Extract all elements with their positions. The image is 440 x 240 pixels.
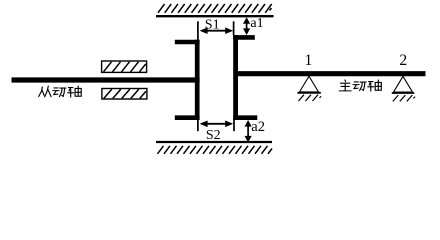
svg-text:1: 1 bbox=[305, 52, 313, 69]
svg-text:S1: S1 bbox=[205, 18, 220, 33]
svg-text:a1: a1 bbox=[250, 16, 263, 31]
svg-text:S2: S2 bbox=[206, 128, 221, 143]
svg-text:2: 2 bbox=[399, 52, 407, 69]
svg-text:a2: a2 bbox=[251, 119, 265, 135]
